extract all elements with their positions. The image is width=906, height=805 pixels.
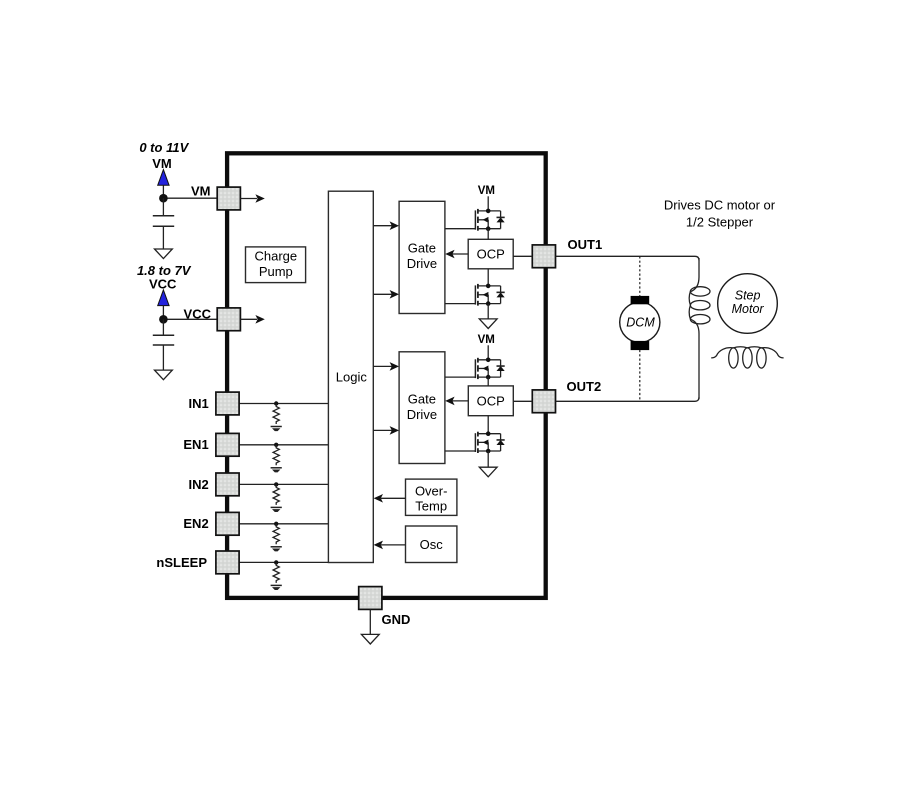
svg-text:VCC: VCC <box>184 307 212 322</box>
block Logic <box>328 191 373 562</box>
node VCC junction <box>159 315 168 324</box>
inductor winding loop 3 <box>690 315 710 324</box>
svg-text:VM: VM <box>191 183 211 198</box>
pin EN2 terminal <box>216 512 239 535</box>
svg-text:EN1: EN1 <box>183 437 208 452</box>
arrow OCP 2 to Gate Drive 2 <box>452 400 468 402</box>
arrow Over-Temp to Logic <box>381 497 406 499</box>
svg-text:Step: Step <box>735 289 761 303</box>
wire C2 to ground <box>162 345 164 370</box>
ground below R4 <box>271 547 282 552</box>
svg-text:OCP: OCP <box>477 247 505 262</box>
resistor R5 pulldown on nSLEEP <box>273 562 279 582</box>
ground below R3 <box>271 507 282 512</box>
svg-text:Over-: Over- <box>415 483 448 498</box>
svg-text:0 to 11V: 0 to 11V <box>139 140 189 155</box>
inductor stepper icon loop 1 <box>729 348 738 368</box>
wire Q2 source to ground <box>487 304 489 319</box>
pin OUT1 terminal <box>532 245 555 268</box>
inductor winding loop 2 <box>690 301 710 310</box>
motor Step Motor body <box>718 274 778 334</box>
svg-text:VM: VM <box>478 185 495 197</box>
block Osc <box>406 526 457 563</box>
resistor R3 pulldown on IN2 <box>273 484 279 505</box>
arrow OCP 1 to Gate Drive 1 <box>452 253 468 255</box>
svg-text:OUT2: OUT2 <box>567 379 602 394</box>
ground below Q2 <box>479 319 497 329</box>
capacitor C1 plates <box>153 215 174 217</box>
block Over-Temp <box>406 479 457 515</box>
wire dashed OUT1 to DC motor <box>639 256 641 296</box>
ground below C1 <box>155 249 173 259</box>
pin VCC terminal <box>217 308 240 331</box>
ground below GND pin <box>361 634 379 644</box>
VCC supply blue arrow <box>158 290 169 306</box>
wire VM to Q3 drain <box>487 345 489 360</box>
arrow VM into IC <box>240 198 257 200</box>
wire OCP 2 to Q4 drain <box>487 416 489 434</box>
pin IN2 terminal <box>216 473 239 496</box>
svg-text:Charge: Charge <box>254 248 297 263</box>
svg-text:VCC: VCC <box>149 277 177 292</box>
resistor R2 pulldown on EN1 <box>273 445 279 466</box>
pin nSLEEP terminal <box>216 551 239 574</box>
motor DCM bottom brush <box>631 341 650 350</box>
ground below Q4 <box>479 467 497 477</box>
wire nSLEEP pin to Logic <box>239 561 328 563</box>
svg-text:EN2: EN2 <box>183 516 208 531</box>
inductor winding side arcs <box>689 291 690 319</box>
svg-text:Drive: Drive <box>407 407 437 422</box>
arrow Logic to Gate Drive 2 lower <box>373 429 392 431</box>
pin IN1 terminal <box>216 392 239 415</box>
ground below R1 <box>271 427 282 432</box>
inductor winding entry arc <box>690 277 699 292</box>
block Gate Drive 1 <box>399 201 445 313</box>
transistor Q4 low-side <box>445 450 476 452</box>
ground below R2 <box>271 468 282 473</box>
pin VM terminal <box>217 187 240 210</box>
wire VM arrow to node <box>162 185 164 198</box>
block Gate Drive 2 <box>399 352 445 464</box>
resistor R4 pulldown on EN2 <box>273 524 279 544</box>
arrow Logic to Gate Drive 1 upper <box>373 225 392 227</box>
svg-text:DCM: DCM <box>626 315 655 329</box>
svg-text:OCP: OCP <box>477 394 505 409</box>
svg-text:Osc: Osc <box>420 537 444 552</box>
svg-text:Drive: Drive <box>407 256 437 271</box>
svg-text:1/2 Stepper: 1/2 Stepper <box>686 214 754 229</box>
wire VCC arrow to node <box>162 306 164 319</box>
node nSLEEP junction <box>274 560 278 564</box>
node EN2 junction <box>274 522 278 526</box>
wire VM to Q1 drain <box>487 196 489 211</box>
resistor R1 pulldown on IN1 <box>273 404 279 425</box>
svg-text:Pump: Pump <box>259 264 293 279</box>
wire node to capacitor C1 <box>162 198 164 216</box>
arrow VCC into IC <box>240 318 257 320</box>
wire C1 to ground <box>162 226 164 249</box>
transistor Q1 high-side <box>445 228 476 230</box>
wire GND pin to ground <box>369 610 371 635</box>
wire Q4 source to ground <box>487 451 489 467</box>
wire node to capacitor C2 <box>162 319 164 335</box>
wire IN2 pin to Logic <box>239 483 328 485</box>
wire Q1 source to OCP 1 <box>487 229 489 240</box>
node IN2 junction <box>274 482 278 486</box>
wire VM node to pin <box>163 197 217 199</box>
wire VCC node to pin <box>163 318 217 320</box>
inductor stepper icon arcs <box>711 347 783 358</box>
ground below C2 <box>155 370 173 380</box>
node IN1 junction <box>274 401 278 405</box>
node VM junction <box>159 194 168 203</box>
arrow Logic to Gate Drive 2 upper <box>373 365 392 367</box>
wire IN1 pin to Logic <box>239 403 328 405</box>
svg-text:Gate: Gate <box>408 391 436 406</box>
pin EN1 terminal <box>216 433 239 456</box>
transistor Q3 high-side <box>445 376 476 378</box>
inductor stepper icon loop 2 <box>743 348 752 368</box>
pin OUT2 terminal <box>532 390 555 413</box>
svg-text:OUT1: OUT1 <box>568 237 603 252</box>
wire dashed DC motor to OUT2 <box>639 350 641 401</box>
svg-text:IN1: IN1 <box>188 396 208 411</box>
wire OCP 1 to OUT1 pin <box>513 255 532 257</box>
pin GND terminal <box>359 587 382 610</box>
svg-text:nSLEEP: nSLEEP <box>156 555 207 570</box>
block OCP 1 <box>468 239 513 268</box>
arrow Osc to Logic <box>381 544 406 546</box>
wire OUT2 to load <box>556 397 699 401</box>
svg-text:VM: VM <box>152 156 172 171</box>
svg-text:VM: VM <box>478 334 495 346</box>
svg-text:Temp: Temp <box>415 499 447 514</box>
inductor stepper icon loop 3 <box>757 348 766 368</box>
motor DCM top brush <box>631 296 650 304</box>
block Charge Pump <box>246 247 306 283</box>
svg-text:IN2: IN2 <box>188 477 208 492</box>
inductor winding exit arc <box>690 319 699 333</box>
wire EN2 pin to Logic <box>239 523 328 525</box>
ground below R5 <box>271 585 282 590</box>
wire Q3 source to OCP 2 <box>487 377 489 386</box>
capacitor C2 plates <box>153 334 174 336</box>
transistor Q2 low-side <box>445 303 476 305</box>
arrow Logic to Gate Drive 1 lower <box>373 293 392 295</box>
wire OCP 2 to OUT2 pin <box>513 400 532 402</box>
wire OUT1 down to winding <box>698 258 700 277</box>
inductor winding loop 1 <box>690 287 710 296</box>
wire OCP 1 to Q2 drain <box>487 269 489 286</box>
block OCP 2 <box>468 386 513 416</box>
svg-text:Logic: Logic <box>336 369 368 384</box>
svg-text:Gate: Gate <box>408 241 436 256</box>
wire OUT1 to load <box>556 256 699 260</box>
svg-text:Motor: Motor <box>732 302 765 316</box>
VM supply blue arrow <box>158 170 169 186</box>
motor DCM body <box>620 302 660 342</box>
wire EN1 pin to Logic <box>239 444 328 446</box>
svg-text:GND: GND <box>382 612 411 627</box>
node EN1 junction <box>274 443 278 447</box>
IC block outline <box>227 153 546 598</box>
svg-text:Drives DC motor or: Drives DC motor or <box>664 197 776 212</box>
wire winding down to OUT2 <box>698 334 700 400</box>
